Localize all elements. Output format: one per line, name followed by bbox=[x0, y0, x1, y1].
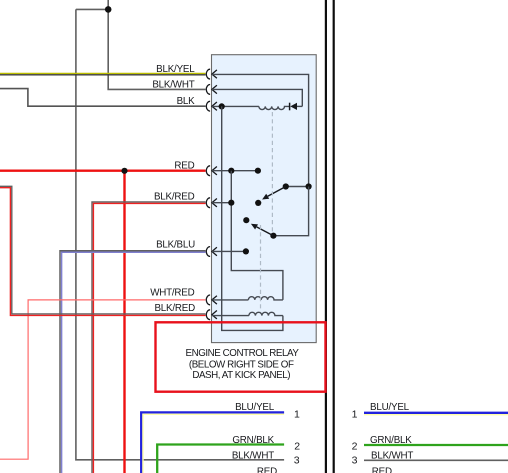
wire BLK/RED upper (red stripe) bbox=[93, 203, 205, 473]
relay internal wire contact column down to switch S2 bbox=[273, 187, 308, 236]
connector pin arrow WHT/RED bbox=[212, 296, 217, 304]
relay box body (light blue) bbox=[212, 55, 317, 343]
connector pin arrow BLK/RED upper bbox=[212, 199, 217, 207]
connector pin arrow BLK bbox=[212, 102, 217, 110]
svg-text:BLK: BLK bbox=[177, 96, 196, 107]
wire BLU/YEL right (yellow stripe) bbox=[364, 414, 508, 416]
svg-text:RED: RED bbox=[257, 466, 277, 473]
wire BLK/BLU (blue stripe) bbox=[62, 252, 206, 473]
relay internal wire BLK/RED pin to column bbox=[212, 202, 231, 204]
junction RED bbox=[121, 168, 127, 174]
wire GRN/BLK right bbox=[364, 444, 508, 446]
connector arc RED bbox=[206, 166, 210, 176]
svg-text:2: 2 bbox=[294, 441, 300, 453]
svg-text:GRN/BLK: GRN/BLK bbox=[370, 435, 412, 446]
connector pin arrow BLK/YEL bbox=[212, 70, 217, 78]
svg-text:GRN/BLK: GRN/BLK bbox=[232, 435, 274, 446]
wire BLK with step bbox=[0, 89, 206, 107]
svg-text:1: 1 bbox=[352, 408, 358, 420]
junction BLK/RED on column bbox=[228, 200, 234, 206]
connector pin arrow BLK/WHT bbox=[212, 85, 217, 93]
connector arc BLK/WHT bbox=[206, 85, 210, 95]
switch S1 column node bbox=[306, 183, 312, 189]
junction BLK inside relay bbox=[219, 103, 225, 109]
junction RED column inside relay bbox=[228, 168, 234, 174]
svg-text:BLK/WHT: BLK/WHT bbox=[371, 450, 413, 461]
switch S1 fixed link bbox=[286, 186, 309, 188]
wire BLK/RED lower (black stripe) bbox=[0, 186, 206, 314]
svg-text:BLU/YEL: BLU/YEL bbox=[235, 402, 275, 413]
armature linkage dashed upper bbox=[271, 112, 273, 232]
connector arc WHT/RED bbox=[206, 295, 210, 305]
svg-text:BLK/WHT: BLK/WHT bbox=[232, 450, 274, 461]
svg-text:DASH, AT KICK PANEL): DASH, AT KICK PANEL) bbox=[192, 370, 290, 381]
wire BLK/YEL (yellow stripe) bbox=[0, 72, 206, 74]
wire BLK/WHT right bbox=[364, 459, 508, 461]
svg-text:3: 3 bbox=[294, 455, 300, 467]
svg-text:BLK/RED: BLK/RED bbox=[154, 191, 195, 202]
diode D1 anode lead bbox=[297, 105, 302, 107]
svg-text:BLK/RED: BLK/RED bbox=[154, 303, 195, 314]
switch S2 arm bbox=[257, 227, 274, 236]
relay internal column RED to coil W1 feed bbox=[231, 171, 283, 300]
armature linkage dashed lower bbox=[260, 225, 262, 312]
connector pin arrow BLK/RED lower bbox=[212, 311, 217, 319]
wire BLK/WHT full-height vertical to bottom connector row bbox=[76, 9, 284, 459]
connector arc BLK/BLU bbox=[206, 247, 210, 257]
right panel component edge line 2 bbox=[333, 0, 335, 473]
svg-text:(BELOW RIGHT SIDE OF: (BELOW RIGHT SIDE OF bbox=[189, 360, 294, 371]
connector arc BLK bbox=[206, 101, 210, 111]
relay internal wire WHT/RED pin to coil W1 bbox=[212, 299, 249, 301]
switch S1 arm bbox=[268, 187, 286, 197]
svg-text:WHT/RED: WHT/RED bbox=[150, 288, 194, 299]
junction top bbox=[105, 6, 112, 13]
svg-text:ENGINE CONTROL RELAY: ENGINE CONTROL RELAY bbox=[186, 348, 300, 359]
relay internal wire BLK/RED lower pin to coil W2 bbox=[212, 315, 249, 317]
wire BLK/YEL (black stripe) bbox=[0, 74, 206, 76]
diode D1 cathode bar bbox=[289, 103, 291, 111]
switch S2 throw contact node bbox=[243, 217, 249, 223]
svg-text:RED: RED bbox=[372, 466, 392, 473]
connector arc BLK/RED lower bbox=[206, 310, 210, 320]
svg-text:BLK/BLU: BLK/BLU bbox=[156, 239, 195, 250]
right panel component edge line 1 bbox=[325, 0, 327, 473]
connector arc BLK/YEL bbox=[206, 69, 210, 79]
wire BLK/RED lower (red stripe) bbox=[0, 188, 206, 316]
relay internal return wire from BLK junction down around coils bbox=[222, 106, 283, 330]
wire BLU/YEL left (blue stripe) bbox=[141, 412, 284, 473]
switch S1 throw contact node bbox=[255, 200, 261, 206]
svg-text:BLU/YEL: BLU/YEL bbox=[370, 402, 410, 413]
relay internal wire from BLK/YEL pin to upper contact column bbox=[212, 74, 309, 186]
relay coil K1 (suppression coil on BLK line) bbox=[259, 106, 289, 109]
svg-text:2: 2 bbox=[352, 441, 358, 453]
diode D1 triangle bbox=[290, 103, 297, 110]
wire BLU/YEL left (yellow stripe) bbox=[143, 414, 284, 473]
red callout rectangle bbox=[156, 322, 326, 391]
wire GRN/BLK left bbox=[157, 445, 284, 473]
contact node RED end bbox=[255, 168, 261, 174]
wire BLK/BLU (black stripe) bbox=[60, 251, 206, 473]
wire WHT/RED bbox=[0, 300, 206, 459]
connector arc BLK/RED upper bbox=[206, 198, 210, 208]
relay internal wire RED pin to contacts bbox=[212, 170, 258, 172]
switch S1 pivot node bbox=[283, 183, 289, 189]
node BLK/BLU terminal bbox=[243, 248, 249, 254]
relay coil W2 bbox=[249, 312, 283, 315]
relay internal wire BLK/BLU pin stub bbox=[212, 250, 246, 252]
connector pin arrow BLK/BLU bbox=[212, 247, 217, 255]
svg-text:BLK/WHT: BLK/WHT bbox=[152, 80, 194, 91]
wire BLK/RED upper (black stripe) bbox=[92, 202, 206, 473]
switch S2 arm arrowhead bbox=[251, 224, 258, 230]
connector pin arrow RED bbox=[212, 167, 217, 175]
wire gray branch top horizontal bbox=[76, 8, 108, 10]
relay internal wire BLK pin to coil K1 bbox=[212, 105, 259, 107]
wire BLK/WHT vertical drop from top bbox=[108, 0, 205, 89]
relay internal wire from BLK/WHT pin down to diode bbox=[212, 89, 302, 106]
wire RED main horizontal bbox=[0, 169, 206, 171]
wire BLU/YEL right (blue stripe) bbox=[364, 412, 508, 414]
wire RED vertical branch bbox=[123, 171, 125, 473]
switch S2 pivot node bbox=[270, 233, 276, 239]
relay coil W1 bbox=[248, 297, 283, 300]
svg-text:3: 3 bbox=[352, 455, 358, 467]
svg-text:BLK/YEL: BLK/YEL bbox=[156, 64, 195, 75]
switch S1 arm arrowhead bbox=[262, 194, 269, 200]
svg-text:RED: RED bbox=[174, 160, 194, 171]
svg-text:1: 1 bbox=[294, 408, 300, 420]
